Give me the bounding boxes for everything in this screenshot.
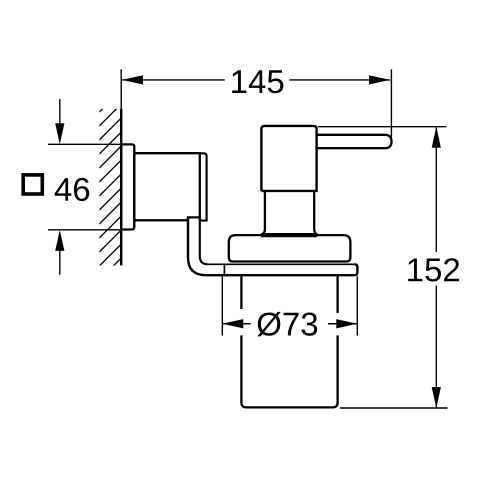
dimension 152 arrowheads (432, 127, 441, 148)
wall line (120, 109, 122, 266)
holder body (134, 153, 200, 220)
cap (229, 235, 351, 261)
dimension 152 extension top (318, 126, 446, 128)
wall plate (121, 144, 134, 229)
neck base bar (261, 233, 317, 237)
dimension 152 text (408, 258, 459, 281)
container glass (241, 276, 337, 407)
dimension 152 extension bottom (340, 407, 448, 409)
holder rear strip (200, 153, 207, 220)
dimension 145 extension right (390, 69, 392, 137)
square symbol (23, 175, 42, 194)
holder band (188, 217, 357, 275)
dimension 73 extension lines (222, 276, 357, 335)
dimension 46 text (55, 178, 89, 201)
dimension 73 text (257, 312, 317, 337)
dimension 145 extension left (120, 69, 122, 109)
dimension 145 line (122, 79, 390, 81)
dimension 145 arrowheads (122, 75, 143, 84)
dimension 73 line (222, 323, 357, 325)
pump body (261, 126, 316, 191)
pump lever (317, 135, 392, 148)
dimension 145 text (232, 70, 283, 93)
dimension 46 arrow top (59, 99, 61, 126)
ring flange top edge (208, 263, 355, 265)
dimension 73 arrowheads (222, 319, 243, 328)
dimension 46 extension lines (48, 144, 120, 229)
pump neck (262, 191, 318, 235)
wall hatching (99, 87, 124, 280)
holder band inner edge (200, 220, 208, 264)
ring flange left tick (223, 264, 225, 275)
dimension 46 arrow bottom (59, 248, 61, 275)
dimension 152 line (435, 128, 437, 408)
